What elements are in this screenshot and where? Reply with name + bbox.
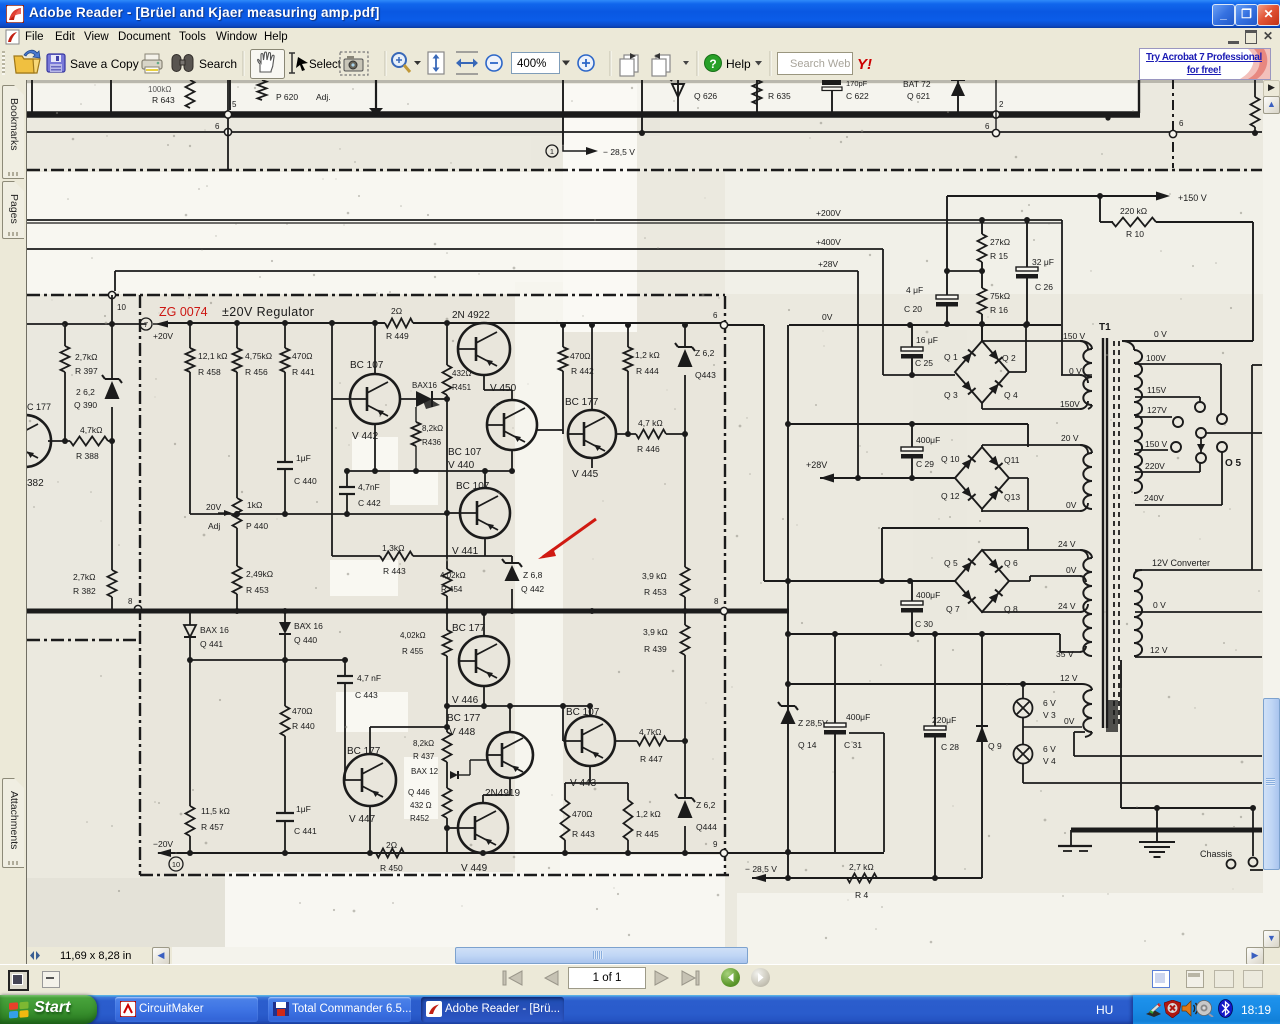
wire 12V converter box (1135, 569, 1262, 571)
svg-text:Q 626: Q 626 (694, 91, 717, 101)
wire 0V tap (1135, 611, 1262, 613)
svg-text:1,2 kΩ: 1,2 kΩ (635, 350, 660, 360)
percent combo (512, 53, 571, 74)
svg-text:0V: 0V (1066, 500, 1077, 510)
resistor R 382 (111, 441, 113, 570)
wire (447, 512, 460, 514)
svg-text:7: 7 (144, 320, 148, 329)
svg-text:P 620: P 620 (276, 92, 298, 102)
svg-text:115V: 115V (1147, 385, 1167, 395)
svg-text:2N 4922: 2N 4922 (452, 310, 490, 321)
wire (589, 706, 591, 716)
resistor (right edge) (1254, 80, 1256, 97)
svg-text:R 443: R 443 (572, 829, 595, 839)
svg-text:R436: R436 (422, 438, 442, 447)
svg-text:R 456: R 456 (245, 367, 268, 377)
transformer primary (1134, 350, 1142, 493)
svg-text:Z 6,2: Z 6,2 (695, 348, 715, 358)
svg-text:R 388: R 388 (76, 451, 99, 461)
svg-text:Y!: Y! (857, 56, 872, 73)
svg-text:35 V: 35 V (1056, 649, 1074, 659)
hand tool button (pressed) (251, 50, 285, 79)
svg-text:Q 10: Q 10 (941, 454, 960, 464)
wire (227, 80, 229, 170)
resistor R 15 (981, 220, 983, 234)
svg-text:±20V Regulator: ±20V Regulator (222, 305, 314, 319)
binoculars (search) icon (172, 55, 193, 72)
lamp V 3 (1014, 699, 1033, 718)
svg-text:C 20: C 20 (904, 304, 922, 314)
resistor R 436 (415, 407, 417, 422)
svg-text:Z 6,2: Z 6,2 (696, 800, 716, 810)
capacitor C 30 (911, 581, 913, 601)
svg-text:Help: Help (726, 57, 751, 71)
svg-text:75kΩ: 75kΩ (990, 291, 1010, 301)
svg-text:Q 390: Q 390 (74, 400, 97, 410)
wire 0V tap (1009, 580, 1030, 582)
svg-text:+20V: +20V (153, 331, 173, 341)
transistor V 448 (487, 732, 533, 778)
diode Q 440 (BAX 16) (284, 613, 286, 622)
wire stub (562, 80, 564, 145)
resistor R 388 (48, 440, 70, 442)
svg-text:Q 442: Q 442 (521, 584, 544, 594)
svg-text:432Ω: 432Ω (452, 369, 471, 378)
wire (347, 470, 512, 472)
capacitor C 20 (936, 295, 958, 299)
resistor R 437 (446, 706, 448, 732)
svg-text:12 V: 12 V (1060, 673, 1078, 683)
bus bar (top heavy rail) (27, 111, 1140, 118)
resistor R 450 (376, 849, 404, 858)
svg-text:2,49kΩ: 2,49kΩ (246, 569, 273, 579)
wire stub (375, 80, 377, 112)
snapshot (camera) (340, 52, 368, 75)
svg-text:Q 5: Q 5 (944, 558, 958, 568)
svg-text:R 397: R 397 (75, 366, 98, 376)
svg-text:Q11: Q11 (1004, 455, 1020, 465)
select tool (289, 53, 308, 73)
resistor R 643 (186, 80, 195, 108)
svg-text:C 25: C 25 (915, 358, 933, 368)
svg-text:12 V: 12 V (1150, 645, 1168, 655)
wire (1074, 731, 1085, 733)
zener Q 390 (111, 295, 113, 379)
svg-text:R 10: R 10 (1126, 229, 1144, 239)
transistor V 449 (458, 803, 508, 853)
wire stub (110, 80, 112, 114)
svg-text:20 V: 20 V (1061, 433, 1079, 443)
resistor R 446 (616, 433, 636, 435)
svg-text:Q 1: Q 1 (944, 352, 958, 362)
svg-text:+400V: +400V (816, 237, 841, 247)
svg-text:BAT 72: BAT 72 (903, 80, 931, 89)
wire (1009, 477, 1028, 479)
svg-text:16 μF: 16 μF (916, 335, 938, 345)
wire +400V (27, 248, 883, 250)
svg-text:C 440: C 440 (294, 476, 317, 486)
svg-text:Q 3: Q 3 (944, 390, 958, 400)
transistor V 445 (568, 410, 616, 458)
svg-text:0V: 0V (1064, 716, 1075, 726)
diode Q 445 (BAX16) (399, 398, 416, 400)
wire (1120, 660, 1122, 808)
svg-text:100V: 100V (1146, 353, 1166, 363)
wire (995, 80, 997, 130)
svg-text:C 177: C 177 (27, 402, 51, 412)
svg-text:24 V: 24 V (1058, 601, 1076, 611)
svg-text:4,7 kΩ: 4,7 kΩ (638, 418, 663, 428)
dash-dot boundary (upper) (27, 169, 1262, 171)
svg-text:470Ω: 470Ω (292, 706, 313, 716)
svg-text:2Ω: 2Ω (391, 306, 402, 316)
diode Q 621 (957, 80, 959, 114)
wire 0V lamps (1023, 726, 1082, 728)
wire (27, 323, 146, 325)
svg-text:12V Converter: 12V Converter (1152, 558, 1210, 568)
nodes on mid rail (234, 608, 240, 614)
wire (x788 vertical) (787, 325, 789, 878)
transistor V 450 (458, 323, 510, 375)
bridge rectifier Q1-Q4 (955, 341, 1009, 403)
svg-text:R 449: R 449 (386, 331, 409, 341)
svg-text:127V: 127V (1147, 405, 1167, 415)
svg-text:Adj.: Adj. (316, 92, 331, 102)
resistor R 454 (446, 514, 448, 569)
svg-text:V 446: V 446 (452, 695, 479, 706)
voltage selector switch (1195, 402, 1205, 412)
svg-text:10: 10 (172, 860, 180, 869)
svg-text:2,7kΩ: 2,7kΩ (73, 572, 95, 582)
wire (981, 324, 983, 341)
resistor R 443 (470) (561, 800, 570, 840)
svg-text:Q 4: Q 4 (1004, 390, 1018, 400)
wire +200V (27, 219, 1062, 221)
ground (chassis) (1156, 808, 1158, 842)
svg-text:Q 621: Q 621 (907, 91, 930, 101)
svg-text:2 6,2: 2 6,2 (76, 387, 95, 397)
svg-text:BC 177: BC 177 (347, 746, 381, 757)
svg-text:4,02kΩ: 4,02kΩ (440, 571, 466, 580)
svg-text:1,2 kΩ: 1,2 kΩ (636, 809, 661, 819)
wire -20V rail (158, 852, 884, 854)
wire (node6 branch) (724, 324, 764, 326)
svg-text:BC 177: BC 177 (565, 397, 599, 408)
svg-text:C 26: C 26 (1035, 282, 1053, 292)
wire 24V tap (981, 550, 983, 551)
wire (589, 766, 591, 783)
svg-text:−20V: −20V (153, 839, 173, 849)
bridge rectifier Q10-Q13 (955, 447, 1009, 509)
svg-text:0 V: 0 V (1069, 366, 1082, 376)
svg-text:R 453: R 453 (644, 587, 667, 597)
resistor R 455 (446, 613, 448, 630)
svg-text:R 455: R 455 (402, 647, 424, 656)
svg-text:150 V: 150 V (1145, 439, 1168, 449)
wire (331, 323, 333, 556)
svg-text:6: 6 (1179, 119, 1184, 128)
fit page icon (428, 52, 444, 74)
transformer 12V converter winding (1134, 578, 1142, 656)
svg-text:470Ω: 470Ω (292, 351, 313, 361)
arrow -20V (157, 849, 171, 857)
bridge rectifier Q5-Q8 (955, 550, 1009, 612)
svg-text:Q444: Q444 (696, 822, 717, 832)
dash-dot frame (27, 294, 725, 296)
svg-text:Q13: Q13 (1004, 492, 1020, 502)
wire (591, 325, 593, 410)
svg-text:V 449: V 449 (461, 863, 488, 874)
svg-text:T1: T1 (1099, 322, 1111, 333)
svg-text:R 442: R 442 (571, 366, 594, 376)
svg-text:Z 6,8: Z 6,8 (523, 570, 543, 580)
svg-text:4,75kΩ: 4,75kΩ (245, 351, 272, 361)
wire (1022, 764, 1024, 783)
svg-text:R 445: R 445 (636, 829, 659, 839)
wire +28V feed (820, 477, 955, 479)
svg-text:Q 440: Q 440 (294, 635, 317, 645)
resistor R 453 (3,9k) (684, 434, 686, 567)
svg-text:BAX16: BAX16 (412, 381, 437, 390)
svg-text:20V: 20V (206, 502, 221, 512)
node 9 (720, 849, 727, 856)
svg-text:0V: 0V (1066, 565, 1077, 575)
transistor V 441 (460, 488, 510, 538)
wire (344, 779, 345, 781)
svg-text:C 28: C 28 (941, 742, 959, 752)
svg-text:R 643: R 643 (152, 95, 175, 105)
svg-text:Q 14: Q 14 (798, 740, 817, 750)
transistor V 382 (0, 415, 51, 467)
svg-text:0V: 0V (822, 312, 833, 322)
svg-text:C 31: C 31 (844, 740, 862, 750)
resistor R 447 (615, 740, 637, 742)
svg-text:R 454: R 454 (441, 585, 463, 594)
node 10 (frame) (108, 291, 115, 298)
resistor R 451 (446, 323, 448, 365)
svg-text:V 441: V 441 (452, 546, 479, 557)
svg-text:1,3kΩ: 1,3kΩ (382, 543, 404, 553)
transistor V 443 (565, 716, 615, 766)
transistor V 447 (344, 754, 396, 806)
svg-text:4 μF: 4 μF (906, 285, 923, 295)
potentiometer P 440 (233, 498, 242, 528)
svg-text:8,2kΩ: 8,2kΩ (422, 424, 443, 433)
resistor R 457 (189, 660, 191, 806)
svg-text:3,9 kΩ: 3,9 kΩ (642, 571, 667, 581)
capacitor C 440 (277, 461, 293, 463)
svg-text:R 635: R 635 (768, 91, 791, 101)
svg-text:100kΩ: 100kΩ (148, 85, 171, 94)
wire 0V rail (789, 324, 1061, 326)
transformer secondary 150-0-150 (1083, 349, 1092, 405)
wire (849, 732, 884, 734)
svg-text:R 16: R 16 (990, 305, 1008, 315)
svg-text:V 445: V 445 (572, 469, 599, 480)
resistor R 458 (189, 323, 191, 348)
wire (511, 450, 513, 471)
svg-text:C 622: C 622 (846, 91, 869, 101)
resistor R 440 (284, 660, 286, 706)
next view icon (652, 53, 670, 76)
capacitor C 26 (1026, 220, 1028, 267)
svg-text:BAX 16: BAX 16 (200, 625, 229, 635)
wire 35V tap (1059, 634, 1061, 652)
node 6 (top right) (1172, 79, 1174, 168)
acrobat ad (1139, 48, 1271, 80)
resistor R 443 (1,3k) (332, 555, 380, 557)
bus bar (chassis rail) (1071, 828, 1262, 833)
svg-text:R 446: R 446 (637, 444, 660, 454)
wire -28,5V (752, 877, 982, 879)
svg-text:BAX 16: BAX 16 (294, 621, 323, 631)
svg-text:24 V: 24 V (1058, 539, 1076, 549)
lamp V 4 (1014, 745, 1033, 764)
resistor R 449 (385, 319, 413, 328)
svg-text:9: 9 (713, 840, 718, 849)
svg-text:R 439: R 439 (644, 644, 667, 654)
svg-text:V 4: V 4 (1043, 756, 1056, 766)
wire (447, 827, 458, 829)
wire (483, 613, 485, 636)
svg-text:− 28,5 V: − 28,5 V (745, 864, 777, 874)
resistor R 441 (284, 323, 286, 348)
wire stub (229, 80, 231, 110)
capacitor C 443 (344, 660, 346, 676)
svg-text:+200V: +200V (816, 208, 841, 218)
diode Q 441 (BAX 16) (189, 613, 191, 625)
svg-text:R452: R452 (410, 814, 430, 823)
wire (788, 633, 1060, 635)
svg-text:Q 446: Q 446 (408, 788, 430, 797)
capacitor C 442 (346, 471, 348, 487)
svg-text:Adj: Adj (208, 521, 220, 531)
wire +28V (115, 270, 858, 272)
svg-text:C 443: C 443 (355, 690, 378, 700)
svg-text:3,9 kΩ: 3,9 kΩ (643, 627, 668, 637)
svg-text:1μF: 1μF (296, 453, 311, 463)
svg-text:BC 107: BC 107 (566, 707, 600, 718)
svg-text:4,02kΩ: 4,02kΩ (400, 631, 426, 640)
svg-text:R 15: R 15 (990, 251, 1008, 261)
node 6 (top left) (224, 128, 231, 135)
svg-text:400%: 400% (517, 58, 546, 70)
svg-text:0 V: 0 V (1154, 329, 1167, 339)
svg-text:R 444: R 444 (636, 366, 659, 376)
search web box (778, 53, 853, 75)
svg-text:C 441: C 441 (294, 826, 317, 836)
svg-text:C 442: C 442 (358, 498, 381, 508)
wire +150V (947, 195, 1158, 197)
svg-text:R451: R451 (452, 383, 472, 392)
resistor R 439 (684, 613, 686, 625)
svg-text:10: 10 (117, 303, 126, 312)
svg-text:R 453: R 453 (246, 585, 269, 595)
wire (882, 527, 1028, 529)
svg-text:2Ω: 2Ω (386, 840, 397, 850)
node 8 (mid) (720, 607, 727, 614)
wire (rail y132) (27, 131, 1262, 133)
save a copy (floppy) (47, 54, 65, 72)
ground (small) (1058, 845, 1092, 847)
zener Q 14 (781, 705, 795, 707)
wire (1252, 364, 1262, 366)
node 1 with -28,5V arrow (546, 145, 558, 157)
resistor R 397 (64, 324, 66, 346)
svg-text:470Ω: 470Ω (572, 809, 593, 819)
svg-text:5: 5 (232, 100, 237, 109)
svg-text:P 440: P 440 (246, 521, 268, 531)
wire 24V tap (lower) (981, 611, 983, 613)
svg-text:BC 177: BC 177 (447, 713, 481, 724)
wire (1025, 325, 1027, 372)
capacitor C 31 (834, 634, 836, 723)
node 10 (lower) (169, 857, 183, 871)
resistor R 442 (562, 325, 564, 347)
resistor R 456 (236, 323, 238, 348)
wire 150V tap (lower) (981, 403, 983, 409)
zener Q 443 (684, 325, 686, 347)
fit width icon (456, 52, 478, 74)
svg-text:O 5: O 5 (1225, 458, 1242, 469)
svg-text:470Ω: 470Ω (570, 351, 591, 361)
svg-text:0 V: 0 V (1153, 600, 1166, 610)
svg-text:R 450: R 450 (380, 863, 403, 873)
svg-text:432 Ω: 432 Ω (410, 801, 432, 810)
svg-text:4,7nF: 4,7nF (358, 482, 380, 492)
svg-text:150 V: 150 V (1063, 331, 1086, 341)
svg-text:+28V: +28V (806, 460, 827, 470)
svg-text:− 28,5 V: − 28,5 V (603, 147, 635, 157)
resistor R 453 (236, 528, 238, 566)
svg-text:R 447: R 447 (640, 754, 663, 764)
svg-text:ZG 0074: ZG 0074 (159, 305, 208, 319)
node 8 (left) (134, 605, 141, 612)
capacitor C 441 (276, 812, 294, 814)
svg-text:170pF: 170pF (846, 80, 868, 88)
svg-text:150V: 150V (1060, 399, 1080, 409)
svg-text:4,7 nF: 4,7 nF (357, 673, 381, 683)
node 7 input (140, 318, 152, 330)
wire 12V lamps (788, 683, 1082, 685)
transistor V 440 (487, 400, 537, 450)
svg-text:R 458: R 458 (198, 367, 221, 377)
svg-text:12,1 kΩ: 12,1 kΩ (198, 351, 228, 361)
svg-text:Q 12: Q 12 (941, 491, 960, 501)
previous view icon (620, 53, 638, 76)
svg-text:220V: 220V (1145, 461, 1165, 471)
svg-text:BC 177: BC 177 (452, 623, 486, 634)
svg-text:240V: 240V (1144, 493, 1164, 503)
svg-text:2,7kΩ: 2,7kΩ (75, 352, 97, 362)
svg-text:Q443: Q443 (695, 370, 716, 380)
open folder icon (14, 50, 40, 73)
svg-text:Q 441: Q 441 (200, 639, 223, 649)
svg-text:R 4: R 4 (855, 890, 869, 900)
zoom in circle (578, 55, 594, 71)
help button (705, 55, 722, 72)
svg-text:220μF: 220μF (932, 715, 956, 725)
wire 0V tap (1061, 374, 1080, 376)
svg-text:2,7 kΩ: 2,7 kΩ (849, 862, 874, 872)
zener Q 442 (485, 555, 512, 557)
svg-text:C 30: C 30 (915, 619, 933, 629)
wire (374, 323, 376, 375)
capacitor C 29 (911, 424, 913, 447)
svg-text:+150 V: +150 V (1178, 193, 1207, 203)
svg-text:R 457: R 457 (201, 822, 224, 832)
svg-text:BAX 12: BAX 12 (411, 767, 439, 776)
